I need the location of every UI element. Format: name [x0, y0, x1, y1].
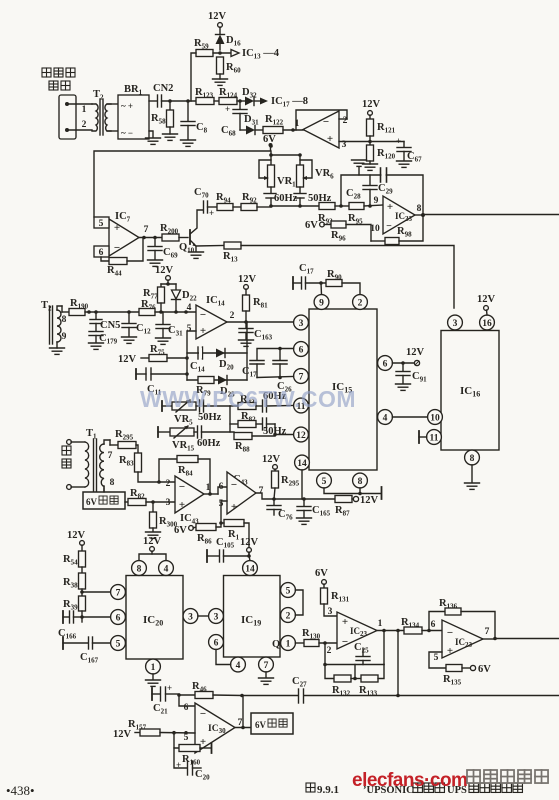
wire IC33 output to right edge: [423, 214, 559, 216]
capacitor C14: [190, 347, 205, 374]
svg-text:VR15: VR15: [172, 440, 195, 453]
ground: [148, 260, 163, 266]
svg-text:11: 11: [430, 434, 439, 444]
svg-text:1: 1: [82, 105, 87, 115]
resistor R59: [194, 38, 231, 57]
ground: [189, 252, 204, 258]
pin 3 circled (IC16 top): [448, 315, 463, 330]
resistor R79: [196, 377, 214, 398]
pin 14 circled (IC15 left-bottom): [295, 455, 310, 470]
pin 7 circled (IC20 left): [111, 585, 126, 600]
svg-text:6V: 6V: [315, 568, 328, 579]
svg-text:6V: 6V: [174, 525, 187, 536]
svg-text:8: 8: [137, 565, 142, 575]
svg-text:+: +: [447, 645, 453, 657]
svg-text:9: 9: [62, 332, 67, 342]
svg-text:R83: R83: [119, 455, 134, 468]
pin 11 circled (IC15 left): [294, 398, 309, 413]
resistor R295: [110, 429, 138, 453]
wire long rail R13 to IC16 pin3: [241, 246, 454, 309]
potentiometer VR15 with 60Hz switch: [158, 426, 234, 453]
svg-text:IC13 —4: IC13 —4: [242, 48, 280, 61]
capacitor CN5: [90, 310, 120, 331]
svg-text:C8: C8: [196, 122, 208, 135]
resistor R300: [150, 502, 178, 531]
svg-text:16: 16: [482, 319, 492, 329]
svg-text:C14: C14: [190, 361, 205, 374]
ground: [213, 79, 228, 85]
op-amp IC43 second: [219, 472, 335, 514]
resistor R95: [348, 203, 383, 226]
svg-text:−: −: [342, 636, 348, 648]
svg-text:+: +: [225, 104, 230, 114]
svg-text:VR5: VR5: [174, 414, 193, 427]
bridge rectifier BR1: [118, 84, 149, 139]
svg-text:7: 7: [144, 225, 149, 235]
pin 5 circled (IC15 bottom): [317, 473, 332, 488]
svg-text:C20: C20: [195, 769, 210, 782]
svg-text:7: 7: [264, 661, 269, 671]
svg-text:7: 7: [259, 486, 264, 496]
footer watermark 电子发烧友: [467, 770, 548, 783]
resistor R98 feedback: [371, 215, 423, 245]
node arrow to IC17-8: [260, 96, 308, 109]
svg-text:2: 2: [82, 120, 87, 130]
pin 3 circled (IC15 left): [294, 315, 309, 330]
resistor R13: [196, 242, 241, 264]
capacitor C76: [267, 499, 293, 522]
resistor R90: [326, 269, 360, 295]
svg-text:4: 4: [383, 414, 388, 424]
wire IC23b output to right edge: [495, 638, 559, 640]
pin 8 circled (IC16 bottom): [465, 450, 480, 465]
potentiometer VR6: [297, 160, 335, 187]
pin 14 circled (IC19 top): [243, 561, 258, 576]
svg-text:~ +: ~ +: [121, 101, 133, 111]
svg-text:R160: R160: [182, 754, 201, 767]
potentiometer VR17: [259, 160, 300, 189]
svg-text:D32: D32: [242, 87, 257, 100]
footer figure label 图9.9.1: [306, 783, 339, 796]
wire IC20 pin3 to IC19 pin3: [198, 615, 209, 617]
wire IC14 pin5 loop left vertical: [187, 331, 196, 380]
svg-text:−: −: [323, 116, 329, 128]
ground: [146, 138, 161, 144]
svg-text:3: 3: [299, 319, 304, 329]
pin 6 circled (IC19 left): [209, 635, 224, 650]
6V terminal lower: [305, 220, 331, 231]
svg-text:7: 7: [485, 627, 490, 637]
wire to IC20 pin6: [82, 616, 111, 618]
capacitor C69: [148, 238, 178, 260]
12V at IC15 pin6: [392, 347, 424, 366]
wire BR1 minus to ground: [149, 131, 153, 137]
svg-text:D20: D20: [219, 359, 234, 372]
svg-text:R54: R54: [63, 554, 78, 567]
ground: [239, 340, 254, 346]
resistor R86: [196, 501, 227, 546]
svg-text:R92: R92: [242, 192, 257, 205]
wire: [69, 103, 92, 105]
switch contact 60Hz: [264, 187, 298, 206]
ground: [363, 164, 378, 170]
svg-text:R59: R59: [194, 38, 209, 51]
pin 12 circled (IC15 left): [294, 427, 309, 442]
svg-text:R95: R95: [348, 213, 363, 226]
pin 3 circled (IC20 right): [183, 609, 198, 624]
svg-text:12V: 12V: [240, 537, 259, 548]
wire pin7 rail: [257, 377, 294, 378]
svg-text:10: 10: [370, 224, 380, 234]
svg-text:2: 2: [327, 646, 332, 656]
ground: [156, 338, 171, 344]
diode D32: [242, 87, 260, 106]
ground: [259, 678, 274, 684]
svg-text:R38: R38: [63, 577, 78, 590]
svg-text:C12: C12: [136, 323, 151, 336]
12V terminal R295b: [262, 454, 281, 471]
svg-text:12V: 12V: [406, 347, 425, 358]
svg-text:C166: C166: [58, 628, 77, 641]
svg-text:6: 6: [214, 639, 219, 649]
capacitor C179: [89, 332, 118, 346]
capacitor C29 in feedback: [378, 168, 393, 196]
12V terminal IC20: [143, 536, 162, 554]
potentiometer VR5 with 50Hz switch: [162, 400, 230, 427]
pin 4 circled (IC20 top): [159, 561, 174, 576]
svg-text:Q: Q: [272, 639, 280, 650]
svg-text:2: 2: [358, 299, 363, 309]
svg-text:12V: 12V: [262, 454, 281, 465]
svg-text:12: 12: [296, 431, 306, 441]
svg-text:~ −: ~ −: [121, 128, 133, 138]
IC20 box: [126, 576, 183, 660]
zener D22: [172, 284, 198, 312]
ground: [297, 518, 312, 524]
svg-text:12V: 12V: [362, 99, 381, 110]
resistor R295b: [272, 471, 300, 499]
12V supply terminal top: [208, 11, 227, 27]
block 6V基准 second: [251, 713, 293, 734]
svg-text:5: 5: [322, 477, 327, 487]
resistor R92: [241, 192, 271, 211]
capacitor C17 top: [293, 263, 326, 289]
op-amp IC33: [370, 196, 425, 234]
capacitor C26b: [354, 642, 370, 665]
svg-text:3: 3: [453, 319, 458, 329]
svg-text:12V: 12V: [360, 495, 379, 506]
svg-text:+: +: [342, 616, 348, 628]
svg-text:C70: C70: [194, 187, 209, 200]
svg-text:+: +: [327, 133, 333, 145]
svg-text:6: 6: [219, 482, 224, 492]
resistor R84 feedback: [159, 456, 210, 495]
resistor R160: [174, 733, 212, 767]
svg-text:+: +: [114, 222, 120, 234]
svg-text:C21: C21: [153, 703, 168, 716]
svg-text:R88: R88: [235, 441, 250, 454]
label 逆变器输出 (inverter output): [42, 68, 75, 90]
svg-text:9.9.1: 9.9.1: [317, 784, 339, 796]
svg-text:−: −: [200, 309, 206, 321]
svg-text:R86: R86: [197, 533, 212, 546]
wire R134 node down to rail: [397, 631, 399, 696]
12V terminal R81: [238, 274, 257, 295]
svg-text:T1: T1: [86, 428, 97, 441]
svg-text:6V: 6V: [86, 497, 98, 507]
wire C21 node to IC30 pin6: [179, 695, 195, 706]
label 市电 (mains): [62, 446, 71, 468]
svg-text:R44: R44: [107, 265, 122, 278]
wire: [69, 129, 92, 131]
resistor R124: [219, 87, 245, 105]
block 6V基准 (6V reference): [83, 488, 125, 509]
diode D20: [216, 349, 234, 372]
ground: [163, 134, 178, 140]
svg-text:R77: R77: [143, 288, 158, 301]
svg-text:C25: C25: [354, 642, 369, 655]
12V terminal IC16: [477, 294, 496, 315]
svg-text:+: +: [176, 760, 181, 770]
svg-text:5: 5: [286, 587, 291, 597]
svg-text:8: 8: [417, 204, 422, 214]
capacitor C68: [221, 101, 247, 138]
svg-text:4: 4: [187, 303, 192, 313]
svg-text:C91: C91: [412, 371, 427, 384]
svg-text:−: −: [114, 242, 120, 254]
capacitor C20: [174, 748, 210, 782]
12V terminal resistor stack: [67, 530, 86, 551]
svg-text:R131: R131: [331, 591, 350, 604]
op-amp IC23 first: [337, 612, 404, 649]
wire IC14 feedback lower branch: [187, 379, 247, 381]
ground: [50, 348, 65, 354]
wire 6V rail into VR top: [270, 151, 272, 155]
ground: [146, 680, 161, 686]
resistor R82: [230, 411, 287, 437]
svg-text:C29: C29: [378, 183, 393, 196]
12V terminal: [362, 99, 381, 119]
resistor R43: [230, 391, 294, 412]
svg-text:14: 14: [297, 459, 307, 469]
pin 2 circled (IC19 right): [281, 608, 296, 623]
ground: [465, 483, 480, 489]
resistor R94: [216, 192, 241, 211]
resistor R135 with 6V: [429, 652, 491, 687]
wire R59 left lead down to rectifier rail: [191, 53, 196, 101]
svg-text:2: 2: [286, 612, 291, 622]
resistor R54: [63, 551, 86, 573]
svg-text:6V: 6V: [305, 220, 318, 231]
svg-text:CN2: CN2: [153, 83, 173, 94]
IC16 box: [441, 331, 499, 451]
wire IC30 output up to R46 rail: [242, 696, 244, 728]
resistor R88: [234, 424, 294, 454]
op-amp IC14: [187, 295, 294, 339]
resistor R60: [217, 57, 242, 79]
svg-text:C31: C31: [168, 325, 183, 338]
svg-text:4: 4: [236, 661, 241, 671]
wire IC43a output to IC43b pin6: [218, 487, 227, 494]
diode D25: [218, 376, 235, 399]
ground: [89, 343, 104, 349]
resistor R200: [160, 223, 188, 241]
wire IC15 pin4 to IC16 pin10: [392, 416, 427, 418]
resistor R190: [62, 298, 139, 316]
svg-text:6: 6: [116, 614, 121, 624]
svg-text:+: +: [387, 201, 393, 213]
ground: [146, 532, 161, 538]
svg-text:D31: D31: [244, 114, 259, 127]
wire to IC20 pin7: [82, 591, 111, 593]
capacitor C11: [136, 368, 189, 397]
svg-text:R98: R98: [397, 226, 412, 239]
pin 16 circled (IC16 top): [480, 315, 495, 330]
stub at IC16 pin11: [419, 431, 427, 443]
svg-text:R295: R295: [115, 429, 134, 442]
resistor R83: [119, 453, 175, 484]
pin 8 circled (IC20 top): [132, 561, 147, 576]
svg-text:8: 8: [358, 477, 363, 487]
wire feedback loop op-amp A: [296, 110, 347, 130]
svg-text:12V: 12V: [67, 530, 86, 541]
capacitor C8: [181, 101, 208, 139]
resistor R1: [221, 520, 249, 555]
12V terminal above C105 node: [240, 537, 259, 556]
svg-text:+: +: [179, 499, 185, 511]
footer caption UPSONIC在线式UPS的市电同步: [363, 783, 522, 796]
wire right vertical of feedback: [246, 322, 248, 380]
svg-text:+: +: [396, 136, 401, 146]
svg-text:elecfans·com: elecfans·com: [352, 770, 467, 791]
svg-text:R120: R120: [377, 148, 396, 161]
resistor R81: [243, 295, 269, 322]
svg-text:1: 1: [286, 640, 291, 650]
resistor R46 feedback: [179, 681, 242, 699]
wire IC15 pin14 down to C165 rail: [301, 470, 303, 499]
svg-text:3: 3: [188, 613, 193, 623]
svg-text:3: 3: [214, 613, 219, 623]
svg-text:R122: R122: [265, 114, 284, 127]
svg-text:R87: R87: [335, 505, 350, 518]
svg-text:D22: D22: [182, 290, 197, 303]
svg-text:−: −: [231, 479, 237, 491]
svg-text:5: 5: [434, 653, 439, 663]
pin 3 circled (IC19 left): [209, 609, 224, 624]
svg-text:R60: R60: [226, 62, 241, 75]
svg-text:60Hz: 60Hz: [274, 193, 298, 204]
svg-text:R81: R81: [253, 297, 268, 310]
svg-text:−: −: [447, 627, 453, 639]
svg-text:2: 2: [166, 479, 171, 489]
wire IC19 pin6 to pin4 loop: [216, 649, 231, 664]
switch contact 50Hz: [294, 187, 332, 206]
resistor R133: [359, 665, 384, 698]
svg-text:8: 8: [62, 315, 67, 325]
wire VR bottom rail: [269, 204, 319, 208]
svg-text:12V: 12V: [477, 294, 496, 305]
svg-text:R13: R13: [223, 251, 238, 264]
svg-text:C27: C27: [292, 676, 307, 689]
resistor R38: [63, 573, 86, 596]
resistor R130: [295, 628, 337, 656]
svg-text:10: 10: [430, 414, 440, 424]
12V terminal for R77/D22: [155, 265, 176, 286]
svg-text:7: 7: [299, 373, 304, 383]
svg-text:6: 6: [383, 360, 388, 370]
svg-text:9: 9: [319, 299, 324, 309]
svg-text:5: 5: [99, 219, 104, 229]
svg-text:VR6: VR6: [315, 168, 334, 181]
svg-text:12V: 12V: [143, 536, 162, 547]
6V terminal: [263, 134, 276, 147]
pin 6 circled (IC15 right): [378, 356, 393, 371]
ground: [396, 384, 411, 390]
svg-text:3: 3: [166, 498, 171, 508]
node IC13-4 output arrow: [231, 48, 280, 61]
svg-text:R94: R94: [216, 192, 231, 205]
pin 8 circled (IC15 bottom): [353, 473, 368, 488]
wire IC15 pins 5/8 bottom loop: [324, 487, 382, 499]
pin 1 circled (IC19 right, Q output): [272, 636, 295, 651]
pin 1 circled (IC20 bottom): [146, 659, 161, 674]
pin 5 circled (IC20 left): [111, 636, 126, 651]
capacitor C17 between IC15 pins 6-7: [242, 347, 294, 379]
wire bias rail to IC7 pin5: [94, 145, 271, 217]
resistor R121: [367, 119, 396, 145]
svg-text:7: 7: [116, 589, 121, 599]
svg-text:−: −: [200, 708, 206, 720]
svg-text:4: 4: [164, 565, 169, 575]
svg-text:R121: R121: [377, 122, 396, 135]
connector block (inverter input): [59, 95, 87, 139]
wire 12V fork to pins 8/4: [139, 554, 166, 561]
op-amp IC23 second: [434, 620, 497, 663]
svg-text:D16: D16: [226, 35, 241, 48]
svg-text:T2: T2: [41, 300, 52, 313]
svg-text:5: 5: [116, 640, 121, 650]
IC19 box: [224, 576, 281, 658]
pin 6 circled (IC20 left): [111, 610, 126, 625]
resistor R123: [195, 87, 219, 105]
diode D16: [216, 35, 242, 51]
svg-text:R130: R130: [302, 628, 321, 641]
wire VR top rail: [269, 144, 302, 165]
transformer T2: [92, 89, 118, 135]
svg-text:−: −: [386, 221, 392, 232]
svg-text:6V: 6V: [478, 664, 491, 675]
resistor R82b: [125, 488, 175, 506]
pin 4 circled (IC19 bottom): [231, 657, 246, 672]
svg-text:1: 1: [151, 663, 156, 673]
wire IC33 feedback top loop: [341, 175, 423, 215]
capacitor CN2 (series): [149, 83, 196, 107]
wire IC19 pin7 ground: [265, 672, 267, 677]
op-amp IC43 first: [166, 476, 218, 526]
ground: [397, 161, 412, 167]
svg-text:14: 14: [245, 565, 255, 575]
svg-text:12V: 12V: [118, 354, 137, 365]
resistor R96: [331, 221, 371, 243]
resistor R93: [318, 203, 349, 226]
6V terminal R86: [174, 525, 196, 536]
svg-text:R58: R58: [151, 113, 166, 126]
wire: [219, 27, 221, 34]
transformer T2 secondary: [41, 300, 67, 348]
svg-text:6: 6: [184, 703, 189, 713]
12V terminal R75: [118, 354, 149, 365]
resistor R58: [151, 101, 174, 134]
